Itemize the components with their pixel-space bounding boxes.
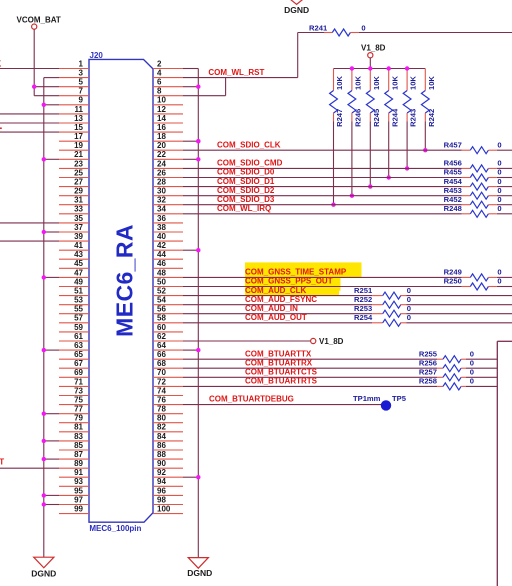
svg-text:67: 67 (74, 359, 83, 368)
svg-text:63: 63 (74, 341, 83, 350)
svg-text:41: 41 (74, 241, 83, 250)
svg-text:35: 35 (74, 214, 83, 223)
svg-text:49: 49 (74, 277, 83, 286)
svg-text:10: 10 (157, 96, 166, 105)
svg-text:96: 96 (157, 486, 166, 495)
svg-text:32: 32 (157, 196, 166, 205)
svg-text:0: 0 (407, 295, 411, 304)
svg-text:55: 55 (74, 305, 83, 314)
svg-text:0: 0 (361, 23, 365, 32)
svg-text:VCOM_BAT: VCOM_BAT (17, 16, 61, 25)
svg-text:COM_WL_IRQ: COM_WL_IRQ (217, 204, 271, 213)
svg-text:T: T (0, 458, 4, 467)
svg-text:6: 6 (157, 78, 162, 87)
svg-text:0: 0 (497, 177, 501, 186)
svg-text:R241: R241 (309, 23, 328, 32)
svg-text:R455: R455 (444, 168, 463, 177)
svg-text:87: 87 (74, 450, 83, 459)
svg-text:24: 24 (157, 159, 166, 168)
svg-text:0: 0 (497, 168, 501, 177)
svg-text:90: 90 (157, 459, 166, 468)
svg-text:10K: 10K (335, 76, 344, 90)
svg-text:84: 84 (157, 432, 166, 441)
svg-text:69: 69 (74, 368, 83, 377)
svg-text:J20: J20 (90, 51, 104, 60)
svg-text:V1_8D: V1_8D (319, 337, 344, 346)
svg-text:81: 81 (74, 423, 83, 432)
svg-text:68: 68 (157, 359, 166, 368)
svg-text:14: 14 (157, 114, 166, 123)
svg-text:12: 12 (157, 105, 166, 114)
svg-text:39: 39 (74, 232, 83, 241)
svg-text:62: 62 (157, 332, 166, 341)
svg-text:89: 89 (74, 459, 83, 468)
svg-text:R244: R244 (390, 108, 399, 127)
svg-text:0: 0 (407, 304, 411, 313)
svg-text:R256: R256 (419, 358, 437, 367)
svg-text:TP1mm: TP1mm (353, 394, 381, 403)
svg-text:R247: R247 (335, 109, 344, 127)
svg-text:0: 0 (497, 195, 501, 204)
svg-text:R249: R249 (444, 268, 462, 277)
svg-text:10K: 10K (427, 76, 436, 90)
svg-text:0: 0 (497, 186, 501, 195)
svg-text:93: 93 (74, 477, 83, 486)
svg-text:V1_8D: V1_8D (361, 43, 386, 52)
svg-text:MEC6_100pin: MEC6_100pin (89, 524, 141, 533)
svg-text:59: 59 (74, 323, 83, 332)
svg-text:COM_SDIO_D3: COM_SDIO_D3 (217, 195, 275, 204)
svg-text:COM_SDIO_D2: COM_SDIO_D2 (217, 186, 275, 195)
svg-text:R255: R255 (419, 349, 438, 358)
svg-text:R245: R245 (372, 108, 381, 127)
svg-text:4: 4 (157, 69, 162, 78)
svg-text:3: 3 (79, 69, 84, 78)
svg-text:26: 26 (157, 168, 166, 177)
svg-text:20: 20 (157, 141, 166, 150)
svg-text:66: 66 (157, 350, 166, 359)
svg-text:COM_BTUARTDEBUG: COM_BTUARTDEBUG (209, 395, 294, 404)
svg-text:86: 86 (157, 441, 166, 450)
svg-text:16: 16 (157, 123, 166, 132)
svg-text:0: 0 (497, 140, 501, 149)
svg-text:61: 61 (74, 332, 83, 341)
svg-text:COM_BTUARTRTS: COM_BTUARTRTS (245, 377, 318, 386)
svg-text:7: 7 (79, 87, 84, 96)
svg-text:COM_SDIO_D0: COM_SDIO_D0 (217, 168, 275, 177)
svg-text:5: 5 (79, 78, 84, 87)
svg-text:R257: R257 (419, 368, 437, 377)
svg-text:25: 25 (74, 168, 83, 177)
svg-text:COM_SDIO_CLK: COM_SDIO_CLK (217, 140, 281, 149)
svg-text:58: 58 (157, 314, 166, 323)
svg-text:R252: R252 (354, 295, 372, 304)
svg-text:85: 85 (74, 441, 83, 450)
svg-text:COM_AUD_OUT: COM_AUD_OUT (245, 313, 307, 322)
svg-text:R243: R243 (409, 109, 418, 127)
svg-text:36: 36 (157, 214, 166, 223)
svg-text:R452: R452 (444, 195, 462, 204)
svg-text:R456: R456 (444, 159, 462, 168)
svg-text:2: 2 (157, 59, 162, 68)
svg-text:11: 11 (75, 105, 84, 114)
svg-text:54: 54 (157, 296, 166, 305)
svg-text:K: K (0, 59, 2, 68)
svg-text:53: 53 (74, 296, 83, 305)
svg-text:44: 44 (157, 250, 166, 259)
svg-text:27: 27 (74, 178, 83, 187)
svg-text:34: 34 (157, 205, 166, 214)
svg-text:R250: R250 (444, 277, 462, 286)
svg-text:92: 92 (157, 468, 166, 477)
svg-text:33: 33 (74, 205, 83, 214)
svg-text:COM_BTUARTCTS: COM_BTUARTCTS (245, 368, 318, 377)
svg-text:82: 82 (157, 423, 166, 432)
svg-text:99: 99 (74, 505, 83, 514)
svg-text:65: 65 (74, 350, 83, 359)
svg-text:91: 91 (74, 468, 83, 477)
svg-text:57: 57 (74, 314, 83, 323)
svg-text:0: 0 (407, 286, 411, 295)
svg-text:73: 73 (74, 386, 83, 395)
svg-text:28: 28 (157, 178, 166, 187)
svg-text:COM_AUD_IN: COM_AUD_IN (245, 304, 298, 313)
svg-text:R251: R251 (354, 286, 373, 295)
svg-text:98: 98 (157, 495, 166, 504)
svg-text:1: 1 (79, 59, 84, 68)
svg-text:10K: 10K (409, 76, 418, 90)
svg-text:DGND: DGND (31, 569, 56, 579)
svg-text:0: 0 (470, 358, 474, 367)
svg-text:R254: R254 (354, 313, 373, 322)
svg-text:46: 46 (157, 259, 166, 268)
svg-text:56: 56 (157, 305, 166, 314)
svg-text:COM_GNSS_TIME_STAMP: COM_GNSS_TIME_STAMP (245, 268, 347, 277)
svg-text:0: 0 (497, 204, 501, 213)
svg-text:31: 31 (74, 196, 83, 205)
svg-text:71: 71 (74, 377, 83, 386)
svg-text:80: 80 (157, 414, 166, 423)
svg-text:38: 38 (157, 223, 166, 232)
svg-text:10K: 10K (372, 76, 381, 90)
svg-text:97: 97 (74, 495, 83, 504)
svg-text:23: 23 (74, 159, 83, 168)
svg-text:COM_AUD_CLK: COM_AUD_CLK (245, 286, 307, 295)
svg-text:29: 29 (74, 187, 83, 196)
svg-text:8: 8 (157, 87, 162, 96)
svg-text:COM_AUD_FSYNC: COM_AUD_FSYNC (245, 295, 317, 304)
svg-text:50: 50 (157, 277, 166, 286)
svg-text:TP5: TP5 (392, 394, 407, 403)
svg-text:40: 40 (157, 232, 166, 241)
svg-text:42: 42 (157, 241, 166, 250)
svg-text:R242: R242 (427, 109, 436, 127)
svg-text:47: 47 (74, 268, 83, 277)
svg-text:76: 76 (157, 396, 166, 405)
svg-text:94: 94 (157, 477, 166, 486)
svg-text:43: 43 (74, 250, 83, 259)
svg-text:78: 78 (157, 405, 166, 414)
svg-text:83: 83 (74, 432, 83, 441)
svg-text:MEC6_RA: MEC6_RA (112, 224, 138, 337)
svg-text:10K: 10K (354, 76, 363, 90)
svg-text:9: 9 (79, 96, 84, 105)
svg-text:64: 64 (157, 341, 166, 350)
svg-text:100: 100 (157, 505, 171, 514)
svg-text:74: 74 (157, 386, 166, 395)
svg-text:10K: 10K (390, 76, 399, 90)
svg-text:37: 37 (74, 223, 83, 232)
svg-text:DGND: DGND (284, 5, 309, 15)
svg-text:77: 77 (74, 405, 83, 414)
svg-text:0: 0 (497, 159, 501, 168)
svg-text:COM_GNSS_PPS_OUT: COM_GNSS_PPS_OUT (245, 277, 333, 286)
svg-text:30: 30 (157, 187, 166, 196)
svg-text:52: 52 (157, 287, 166, 296)
svg-text:R258: R258 (419, 377, 437, 386)
svg-text:17: 17 (74, 132, 83, 141)
svg-text:COM_BTUARTTX: COM_BTUARTTX (245, 349, 312, 358)
svg-text:COM_WL_RST: COM_WL_RST (208, 68, 264, 77)
svg-text:R246: R246 (354, 109, 363, 127)
svg-text:0: 0 (497, 277, 501, 286)
svg-text:0: 0 (470, 377, 474, 386)
svg-text:15: 15 (74, 123, 83, 132)
svg-text:88: 88 (157, 450, 166, 459)
svg-text:R253: R253 (354, 304, 372, 313)
svg-text:R454: R454 (444, 177, 463, 186)
svg-text:48: 48 (157, 268, 166, 277)
svg-text:45: 45 (74, 259, 83, 268)
svg-text:0: 0 (470, 368, 474, 377)
svg-text:0: 0 (407, 313, 411, 322)
svg-text:COM_BTUARTRX: COM_BTUARTRX (245, 358, 313, 367)
svg-text:72: 72 (157, 377, 166, 386)
svg-text:DGND: DGND (187, 568, 212, 578)
svg-text:60: 60 (157, 323, 166, 332)
svg-text:COM_SDIO_CMD: COM_SDIO_CMD (217, 159, 283, 168)
svg-text:79: 79 (74, 414, 83, 423)
svg-text:R453: R453 (444, 186, 462, 195)
svg-text:75: 75 (74, 396, 83, 405)
svg-text:COM_SDIO_D1: COM_SDIO_D1 (217, 177, 275, 186)
svg-text:21: 21 (74, 150, 83, 159)
svg-text:70: 70 (157, 368, 166, 377)
svg-text:R457: R457 (444, 140, 462, 149)
svg-text:51: 51 (74, 287, 83, 296)
svg-text:22: 22 (157, 150, 166, 159)
svg-text:0: 0 (470, 349, 474, 358)
svg-text:R248: R248 (444, 204, 462, 213)
svg-text:95: 95 (74, 486, 83, 495)
svg-text:18: 18 (157, 132, 166, 141)
svg-text:19: 19 (74, 141, 83, 150)
svg-text:13: 13 (74, 114, 83, 123)
svg-text:0: 0 (497, 268, 501, 277)
